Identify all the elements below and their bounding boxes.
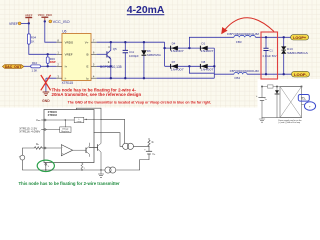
fragment ground bbox=[259, 118, 265, 123]
voltage regulator block bbox=[60, 127, 71, 133]
svg-text:U6: U6 bbox=[62, 29, 66, 33]
svg-text:Regulator: Regulator bbox=[61, 130, 70, 133]
svg-text:XTR115: XTR115 bbox=[62, 81, 74, 85]
svg-text:FB4: FB4 bbox=[235, 76, 241, 80]
pin VREF stub bbox=[42, 119, 45, 121]
port VREF bbox=[9, 22, 21, 26]
blue rounded-rect annotation Vsup bbox=[298, 95, 309, 102]
svg-text:Io: Io bbox=[86, 76, 89, 80]
wire R04 to U6 pin1 VREF bbox=[29, 44, 57, 54]
svg-text:C1: C1 bbox=[269, 49, 273, 53]
capacitor C1 bbox=[263, 37, 277, 74]
junction bridge right row2 bbox=[213, 65, 215, 67]
junction node VREF wire bbox=[47, 53, 49, 55]
wire V+ rail bbox=[97, 41, 165, 43]
wire to RL branch bbox=[134, 145, 150, 147]
svg-text:comp: comp bbox=[77, 121, 81, 123]
svg-text:VREF: VREF bbox=[25, 13, 33, 17]
svg-text:V+: V+ bbox=[85, 40, 89, 44]
junction Q5 emitter bbox=[110, 65, 112, 67]
svg-text:20mA transmitter, see the refe: 20mA transmitter, see the reference desi… bbox=[52, 92, 142, 97]
wire bridge mid riser to LOOP+ rail bbox=[189, 37, 234, 48]
capacitor C11 bbox=[123, 42, 139, 78]
svg-text:GND: GND bbox=[42, 99, 50, 103]
svg-text:4-20mA: 4-20mA bbox=[127, 5, 165, 16]
junction bridge mid row2 bbox=[188, 65, 190, 67]
pin V- stub below box bbox=[45, 163, 47, 171]
wire node to R04 bbox=[28, 23, 30, 33]
svg-text:1000pF: 1000pF bbox=[129, 54, 139, 58]
internal node dots bbox=[65, 119, 66, 120]
fragment corner dots bbox=[261, 86, 263, 88]
diode D13 TVS SMDJ58CA bbox=[281, 37, 309, 74]
wire DAC_OUT to R10 bbox=[24, 65, 31, 67]
svg-text:FB3: FB3 bbox=[236, 40, 242, 44]
svg-text:1K: 1K bbox=[31, 40, 35, 44]
emitter resistor bbox=[81, 163, 85, 171]
fragment bottom wire bbox=[262, 117, 302, 119]
wire bottom Io rail bbox=[97, 77, 215, 79]
wire bridge left vertical bbox=[164, 42, 166, 66]
svg-text:VCC_ISO: VCC_ISO bbox=[53, 20, 70, 24]
op-amp A1 bbox=[61, 145, 72, 156]
svg-text:VREF: VREF bbox=[65, 53, 73, 57]
red highlight rectangle bbox=[261, 32, 278, 79]
fragment supply battery bbox=[256, 87, 267, 118]
svg-text:1N4007: 1N4007 bbox=[201, 49, 214, 53]
wire bridge row1 bbox=[165, 47, 215, 49]
svg-text:C: C bbox=[108, 45, 110, 49]
svg-text:Rₙ: Rₙ bbox=[36, 144, 39, 146]
junction bridge mid row1 bbox=[188, 47, 190, 49]
wire loop return bbox=[116, 160, 149, 171]
svg-text:VREF: VREF bbox=[9, 22, 19, 26]
junction Q5 emitter on rail bbox=[110, 77, 112, 79]
blue ellipse annotation plus terminal bbox=[304, 102, 315, 111]
figure ground symbol bbox=[98, 170, 103, 177]
internal wire IIN to op-amp bbox=[44, 147, 61, 149]
junction C11 top bbox=[124, 41, 126, 43]
U6 pin names bbox=[65, 40, 89, 80]
red annotation arrow bbox=[221, 18, 274, 34]
junction node VCC_ISO bbox=[44, 20, 46, 22]
green circle annotation bbox=[37, 160, 54, 171]
white paper lower area bbox=[0, 108, 320, 188]
svg-text:D7: D7 bbox=[172, 60, 176, 64]
svg-text:SMDJ58CA: SMDJ58CA bbox=[287, 51, 309, 55]
svg-text:B: B bbox=[86, 53, 88, 57]
XTR115 datasheet figure box bbox=[44, 110, 94, 163]
resistor R03 DNP bbox=[46, 54, 55, 66]
svg-text:FB*(0603)600OHM: FB*(0603)600OHM bbox=[230, 69, 260, 73]
U6 pin stubs left bbox=[56, 42, 62, 78]
wire U6 E to Q5 emitter bbox=[97, 65, 111, 67]
transistor Q5 BCP56 bbox=[100, 42, 122, 78]
input source V1 bbox=[19, 148, 46, 170]
svg-text:This node has to be floating f: This node has to be floating for 2-wire … bbox=[19, 181, 121, 186]
junction D6 bottom bbox=[143, 77, 145, 79]
junction dots return bbox=[45, 169, 46, 170]
internal wire mirror out bbox=[84, 118, 101, 120]
svg-text:FB*(0603)600OHM: FB*(0603)600OHM bbox=[227, 32, 259, 36]
svg-text:D8: D8 bbox=[202, 60, 206, 64]
junction Q5 collector bbox=[110, 41, 112, 43]
port LOOP+ bbox=[291, 35, 309, 41]
svg-text:0.01uF 50V: 0.01uF 50V bbox=[263, 54, 277, 58]
ferrite bead FB4 bbox=[230, 69, 260, 80]
U6 pin stubs right bbox=[91, 42, 97, 78]
svg-text:V₋: V₋ bbox=[48, 166, 51, 168]
junction node VREF bbox=[28, 22, 30, 24]
loop connector circles bottom bbox=[110, 167, 116, 173]
junction C1 bottom bbox=[265, 73, 267, 75]
diode D8 1N4007 bbox=[200, 60, 214, 72]
op-amp/IC U6 XTR115 body bbox=[62, 29, 91, 85]
wire bottom rail right segment bbox=[214, 73, 234, 75]
schematic cream background bbox=[0, 0, 320, 108]
fragment TVS diode bbox=[275, 87, 279, 118]
svg-text:Q5: Q5 bbox=[113, 47, 117, 51]
svg-text:(+) and (-) side of the loop: (+) and (-) side of the loop bbox=[278, 121, 300, 124]
svg-text:VRDG: VRDG bbox=[65, 40, 74, 44]
figure wire V+ top to loop bbox=[101, 119, 125, 143]
fragment top wire bbox=[262, 86, 302, 88]
svg-text:E: E bbox=[108, 60, 110, 64]
junction D6 top bbox=[143, 41, 145, 43]
port VCC_ISO bbox=[49, 20, 70, 24]
internal transistor bbox=[86, 143, 89, 157]
fragment Vsup pin tick bbox=[302, 97, 305, 104]
pin Vreg stub bbox=[42, 129, 45, 131]
internal wire VREF bbox=[44, 119, 74, 121]
port DAC_OUT bbox=[2, 65, 24, 69]
svg-text:1.5K: 1.5K bbox=[32, 69, 38, 73]
junction node I+ bbox=[47, 65, 49, 67]
svg-text:LOOP-: LOOP- bbox=[294, 73, 308, 77]
svg-text:1N4007: 1N4007 bbox=[171, 67, 184, 71]
diode D4 1N4007 bbox=[171, 41, 185, 53]
fragment transmitter X-box bbox=[280, 87, 302, 118]
svg-text:LOOP+: LOOP+ bbox=[293, 36, 306, 40]
wire bridge right vertical bbox=[213, 48, 215, 78]
ferrite bead FB3 bbox=[227, 32, 259, 44]
wire VREF port to node bbox=[21, 22, 29, 24]
loop connector circles top bbox=[123, 143, 129, 149]
svg-text:I+: I+ bbox=[65, 65, 68, 69]
internal wire Vreg bbox=[44, 120, 65, 130]
svg-text:XTR116: 4.096V: XTR116: 4.096V bbox=[19, 130, 40, 134]
wire bridge mid to bottom rail bbox=[189, 66, 214, 73]
junction bridge left row1 bbox=[163, 47, 165, 49]
svg-text:1N4007: 1N4007 bbox=[171, 49, 184, 53]
pin IIN stub bbox=[42, 147, 44, 149]
svg-text:DAC_OUT: DAC_OUT bbox=[5, 65, 22, 69]
svg-text:Iₒ: Iₒ bbox=[84, 167, 86, 169]
U6 pin numbers bbox=[57, 39, 95, 79]
load resistor RL bbox=[148, 138, 154, 146]
white pasted fragment background (right) bbox=[258, 79, 320, 108]
wire return segment bbox=[46, 169, 105, 171]
wire bridge row2 bbox=[165, 65, 215, 67]
svg-text:1N4007: 1N4007 bbox=[201, 67, 214, 71]
svg-text:DNP: DNP bbox=[50, 60, 56, 64]
svg-text:The GND of the transmitter is: The GND of the transmitter is located at… bbox=[68, 100, 212, 104]
diode D7 1N4007 bbox=[171, 60, 185, 72]
fragment series resistor bbox=[268, 85, 274, 88]
svg-text:I-: I- bbox=[65, 76, 67, 80]
wire base U6 B to Q5 bbox=[97, 53, 107, 55]
port LOOP- bbox=[292, 71, 310, 77]
svg-text:Vₛₙₚ: Vₛₙₚ bbox=[301, 97, 305, 100]
svg-text:D4: D4 bbox=[172, 41, 176, 45]
wire FB3 to LOOP+ bbox=[256, 36, 291, 38]
output transistor of figure bbox=[89, 119, 101, 170]
resistor R10 1.5K bbox=[31, 61, 41, 73]
wire FB4 to LOOP- bbox=[247, 73, 291, 75]
svg-text:R10: R10 bbox=[32, 61, 38, 65]
resistor R04 1K bbox=[27, 34, 36, 44]
red X annotation over ground node bbox=[41, 75, 51, 90]
svg-text:+: + bbox=[309, 104, 311, 108]
junction D13 top bbox=[283, 36, 285, 38]
junction D13 bottom bbox=[283, 73, 285, 75]
power symbol VCC_ISO bbox=[38, 13, 53, 21]
wire U6 pin3 I- to ground bbox=[46, 78, 57, 91]
input resistor RIN bbox=[34, 144, 42, 149]
internal wire op-amp out bbox=[73, 149, 86, 151]
svg-text:Vₐₑₒ: Vₐₑₒ bbox=[36, 119, 41, 122]
loop supply V+ battery bbox=[144, 146, 156, 159]
box top V+ pin wire bbox=[76, 108, 101, 119]
junction C11 bottom bbox=[124, 77, 126, 79]
junction C1 top bbox=[265, 36, 267, 38]
svg-text:SMBJ5V0A: SMBJ5V0A bbox=[147, 53, 161, 57]
svg-text:D1: D1 bbox=[202, 41, 206, 45]
diode D6 TVS bbox=[141, 42, 161, 78]
svg-text:VCC_ISO: VCC_ISO bbox=[38, 13, 53, 17]
svg-text:XTR116: XTR116 bbox=[48, 113, 58, 117]
figure wire collector loop bbox=[94, 133, 123, 147]
wire R10 to U6 pin2 bbox=[41, 65, 57, 67]
svg-text:E: E bbox=[86, 65, 88, 69]
wire VCC_ISO to U6 pin8 VRDG bbox=[45, 21, 57, 42]
power symbol VREF bbox=[25, 13, 33, 23]
ground GND (maroon) bbox=[42, 92, 50, 103]
svg-text:Vₙ: Vₙ bbox=[265, 99, 267, 101]
current mirror block bbox=[74, 117, 84, 123]
diode D1 1N4007 bbox=[200, 41, 214, 53]
